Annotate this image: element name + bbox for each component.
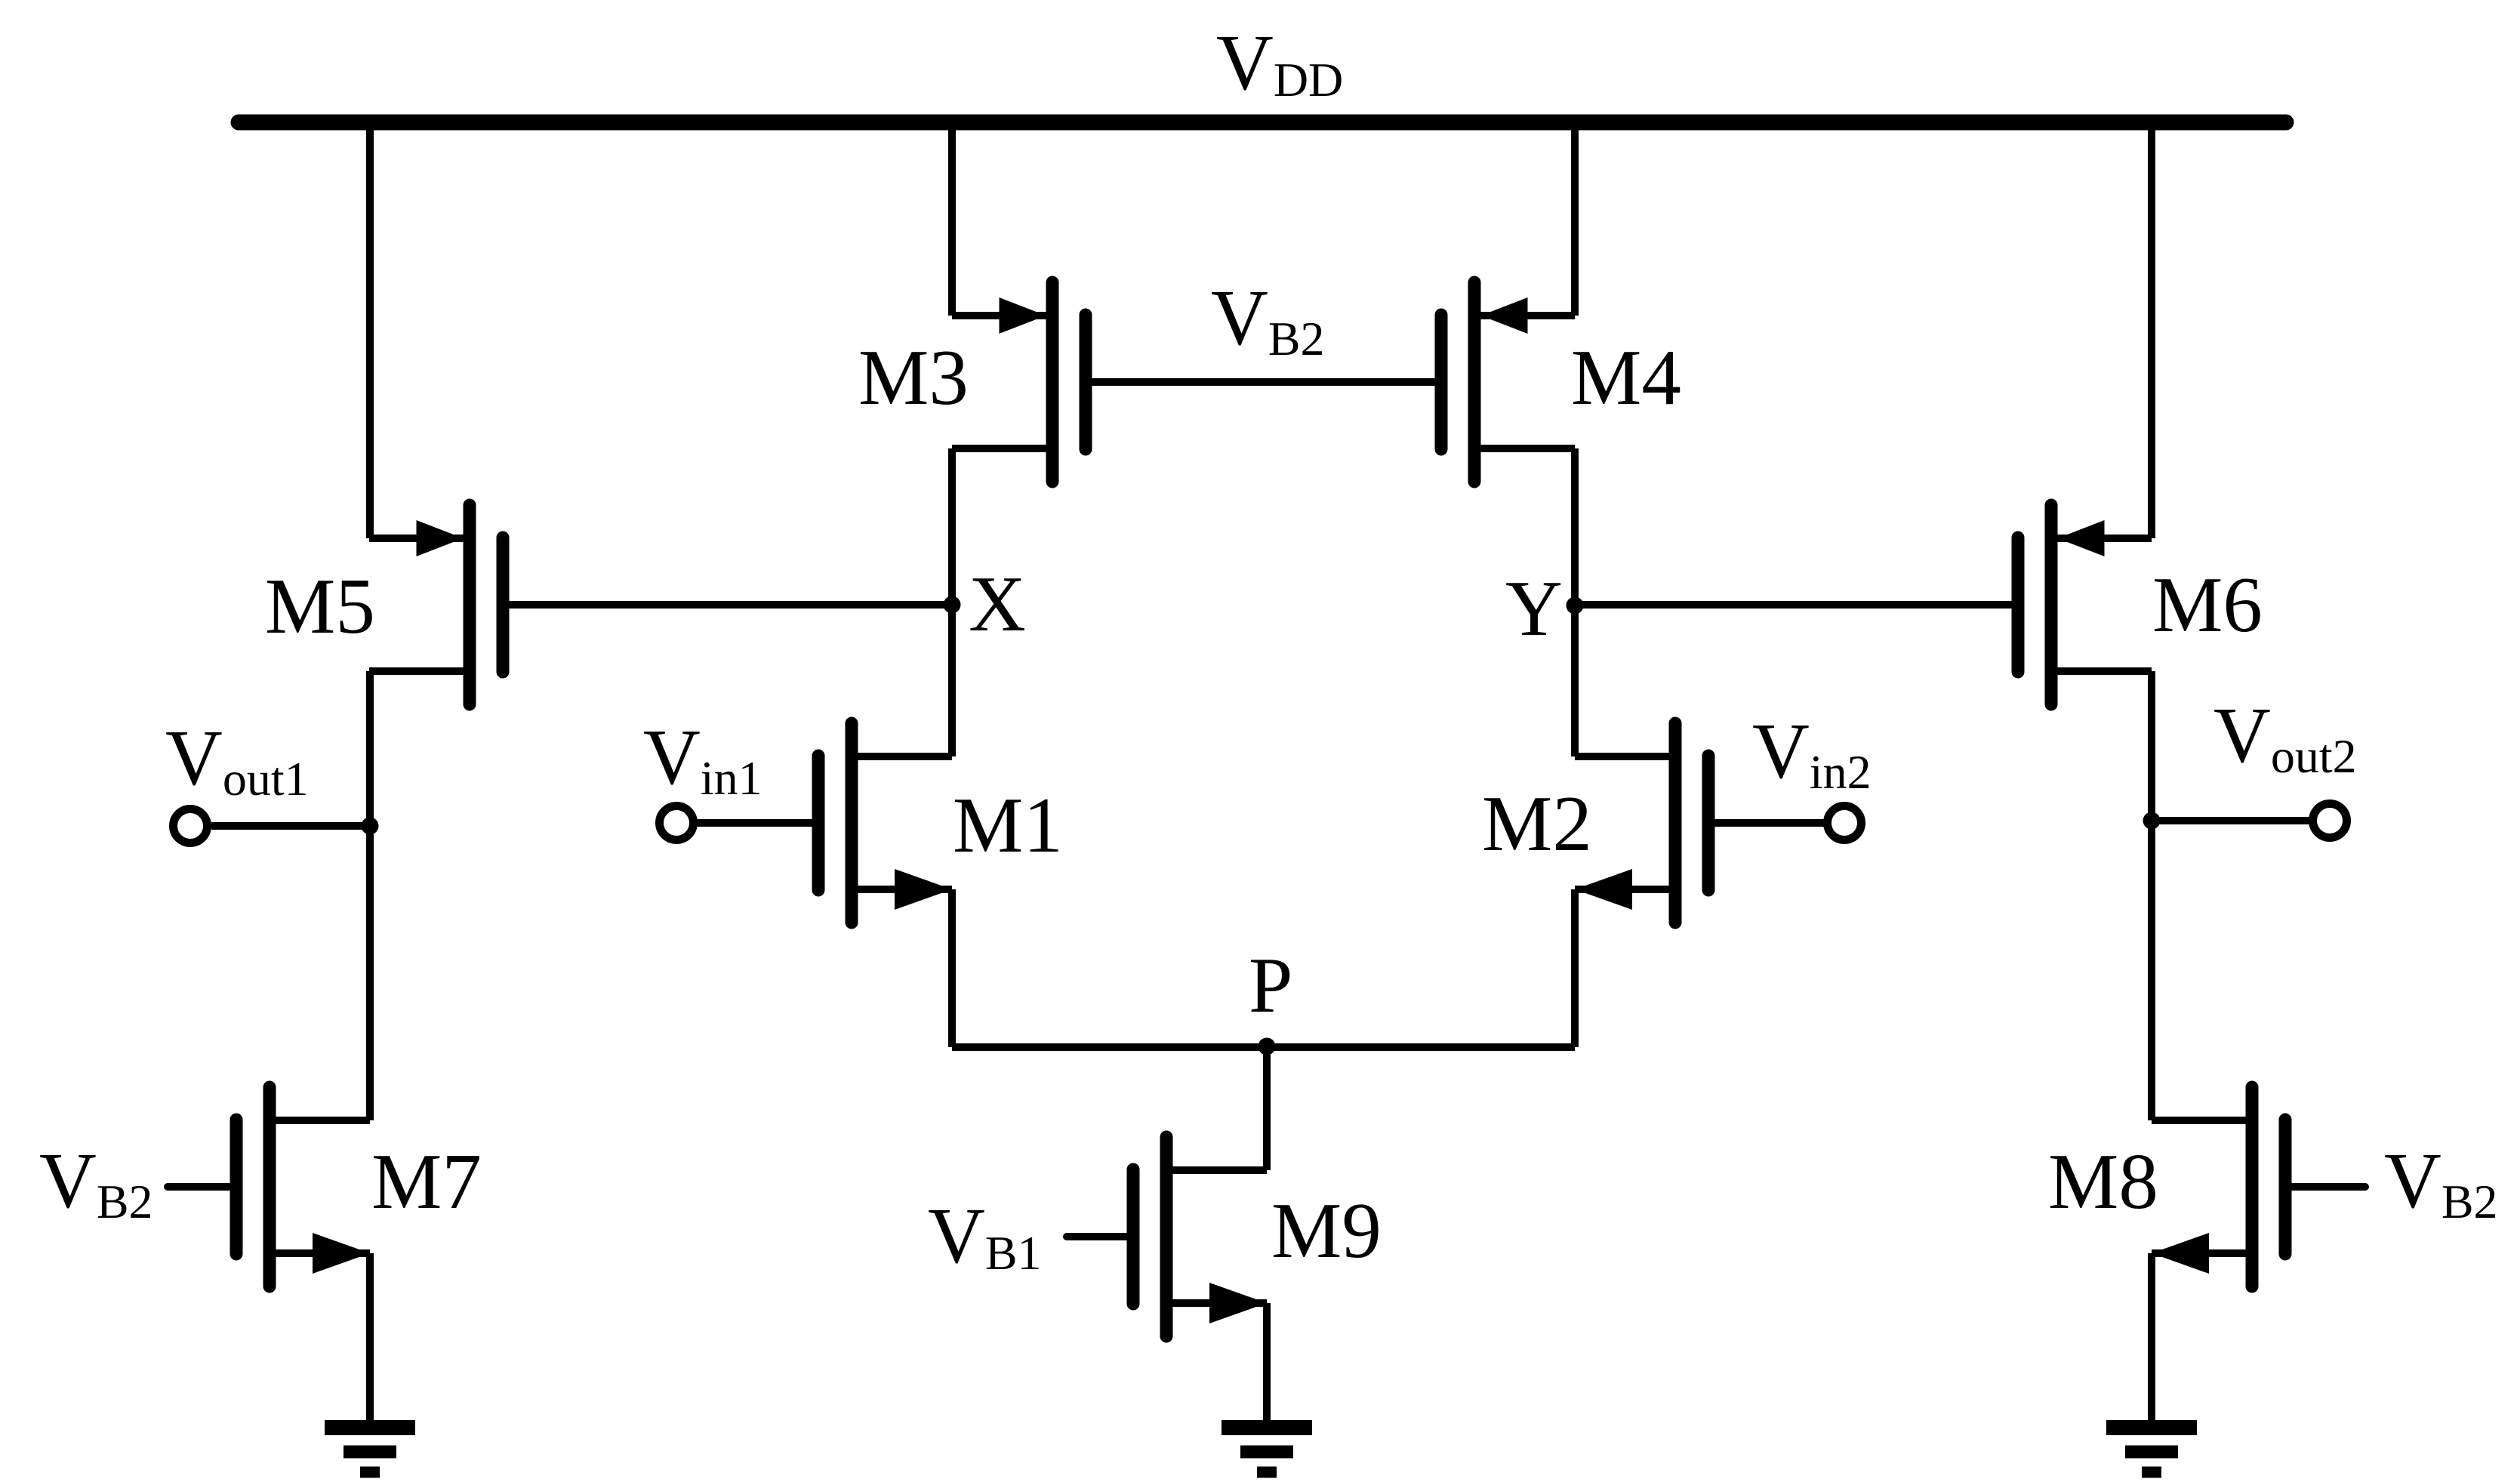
svg-text:M2: M2	[1482, 779, 1592, 867]
svg-text:Y: Y	[1505, 564, 1563, 652]
svg-text:M4: M4	[1571, 333, 1681, 421]
svg-text:VB2: VB2	[1211, 273, 1325, 365]
svg-text:M3: M3	[858, 333, 969, 421]
svg-text:Vin1: Vin1	[643, 713, 762, 805]
svg-text:M7: M7	[371, 1137, 482, 1225]
svg-text:M8: M8	[2048, 1137, 2158, 1225]
svg-text:Vout2: Vout2	[2213, 691, 2357, 783]
svg-text:M5: M5	[265, 562, 375, 650]
svg-text:Vin2: Vin2	[1752, 707, 1872, 799]
svg-text:Vout1: Vout1	[165, 713, 309, 806]
svg-text:VB2: VB2	[2384, 1136, 2498, 1228]
svg-text:P: P	[1249, 941, 1292, 1029]
svg-text:M9: M9	[1271, 1186, 1382, 1274]
svg-text:X: X	[969, 559, 1026, 648]
svg-text:VB1: VB1	[928, 1191, 1042, 1280]
svg-text:M6: M6	[2152, 560, 2263, 649]
svg-text:M1: M1	[953, 781, 1063, 869]
svg-text:VB2: VB2	[39, 1136, 153, 1228]
svg-text:VDD: VDD	[1216, 18, 1343, 106]
